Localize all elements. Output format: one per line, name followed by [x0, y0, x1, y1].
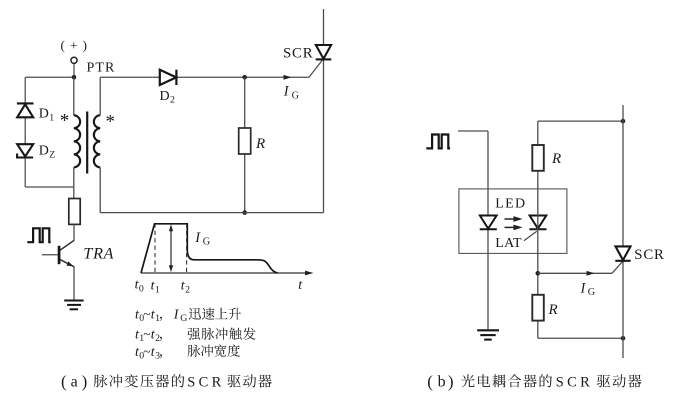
svg-text:Z: Z [49, 149, 55, 160]
square wave input symbol (a) [27, 228, 50, 242]
svg-text:1: 1 [155, 313, 160, 324]
wire: gate horizontal (b) [538, 272, 612, 274]
svg-text:SCR: SCR [283, 45, 313, 61]
svg-text:TRA: TRA [83, 246, 114, 263]
svg-text:PTR: PTR [87, 61, 116, 76]
svg-text:SCR: SCR [187, 374, 224, 390]
svg-text:): ) [82, 372, 88, 391]
diode D2 [160, 70, 177, 85]
dashed line t2 [186, 225, 188, 272]
svg-text:2: 2 [185, 284, 190, 295]
node: gate junction dot (b) [536, 271, 541, 276]
ground (b) [477, 330, 499, 339]
transistor TRA [58, 240, 74, 267]
svg-text:1: 1 [49, 112, 54, 123]
diode D1 [17, 103, 34, 117]
svg-text:(: ( [427, 372, 433, 391]
wire: left rail vertical [24, 77, 26, 187]
wire: secondary top horizontal to SCR gate [100, 76, 309, 78]
wire: input horizontal (b) [458, 130, 488, 132]
resistor in collector branch [69, 199, 80, 225]
wire: bottom horizontal (a) [100, 212, 323, 214]
svg-text:G: G [588, 287, 596, 298]
svg-text:(: ( [61, 372, 67, 391]
svg-text:a: a [71, 373, 78, 390]
wire: LED branch vertical [487, 131, 489, 329]
svg-text:3: 3 [155, 351, 160, 362]
wire: secondary bottom lead [99, 167, 101, 212]
wire: top left horizontal [25, 76, 74, 78]
resistor R upper (b) [532, 145, 544, 171]
square wave input symbol (b) [426, 135, 450, 149]
svg-text:): ) [448, 372, 454, 391]
resistor R (a) [239, 128, 251, 154]
svg-text:*: * [60, 111, 70, 132]
svg-text:( + ): ( + ) [61, 38, 89, 53]
double arrow amplitude [169, 224, 173, 272]
transformer primary winding [74, 115, 80, 167]
svg-text:SCR: SCR [634, 247, 664, 263]
svg-text:LED: LED [495, 197, 526, 212]
node: junction dot at (+) [72, 75, 77, 80]
wire: R branch vertical [244, 77, 246, 212]
LED diode [480, 216, 497, 230]
wire: base lead [42, 254, 58, 256]
svg-text:1: 1 [155, 284, 160, 295]
svg-text:D: D [39, 107, 49, 122]
SCR symbol (a) [316, 45, 332, 59]
terminal (+) circle [71, 57, 77, 63]
svg-text:R: R [255, 136, 265, 152]
arrow: IG direction (b) [587, 271, 595, 276]
svg-text:2: 2 [170, 95, 175, 106]
svg-text:~: ~ [143, 344, 150, 359]
resistor R lower (b) [532, 295, 544, 321]
SCR symbol (b) [615, 246, 630, 260]
node: bottom dot (b) [621, 336, 626, 341]
wire: gate slant (b) [612, 261, 623, 273]
optocoupler box [459, 189, 567, 254]
arrow: gate current IG direction [284, 75, 292, 80]
zener diode DZ [17, 144, 33, 157]
wire: primary below winding [73, 167, 75, 198]
wire: (+) terminal to top node [73, 64, 75, 78]
svg-text:D: D [39, 144, 49, 159]
waveform time axis [141, 272, 310, 274]
svg-text:SCR: SCR [556, 374, 593, 390]
svg-text:b: b [438, 373, 446, 390]
svg-text:D: D [160, 89, 170, 104]
SCR thyristor (a) anode line [323, 9, 325, 213]
wire: gate slant into SCR [309, 60, 323, 78]
transformer core bar [86, 112, 88, 174]
svg-text:R: R [551, 151, 561, 167]
ground (a) [64, 301, 83, 310]
SCR cathode-anode line (b) [622, 105, 624, 358]
dashed line t1 [154, 225, 156, 273]
svg-text:G: G [180, 313, 187, 324]
svg-text:LAT: LAT [495, 236, 522, 251]
svg-text:*: * [106, 112, 116, 133]
wire: bottom horizontal (b) [538, 337, 623, 339]
node: bottom junction dot [242, 210, 247, 215]
svg-text:R: R [548, 302, 558, 318]
wire: emitter vertical [73, 267, 75, 300]
waveform IG curve [141, 224, 278, 273]
svg-text:~: ~ [143, 326, 150, 341]
svg-text:2: 2 [155, 333, 160, 344]
svg-text:~: ~ [143, 306, 150, 321]
svg-text:G: G [203, 237, 211, 248]
node: top dot (b) [621, 119, 626, 124]
wire: bottom left horizontal [25, 186, 74, 188]
pulse transformer PTR primary lead [73, 77, 75, 115]
wire: collector vertical [73, 224, 75, 240]
pointer line LAT [524, 231, 537, 240]
light arrows [505, 217, 521, 229]
photothyristor LAT [529, 216, 546, 230]
transformer secondary winding [94, 115, 100, 167]
wire: secondary top lead [99, 77, 101, 115]
svg-text:0: 0 [139, 283, 144, 294]
wire: top horizontal (b) [538, 120, 623, 122]
svg-text:G: G [292, 91, 300, 102]
wire: LAT branch vertical [537, 121, 539, 338]
node: R top junction dot [242, 75, 247, 80]
